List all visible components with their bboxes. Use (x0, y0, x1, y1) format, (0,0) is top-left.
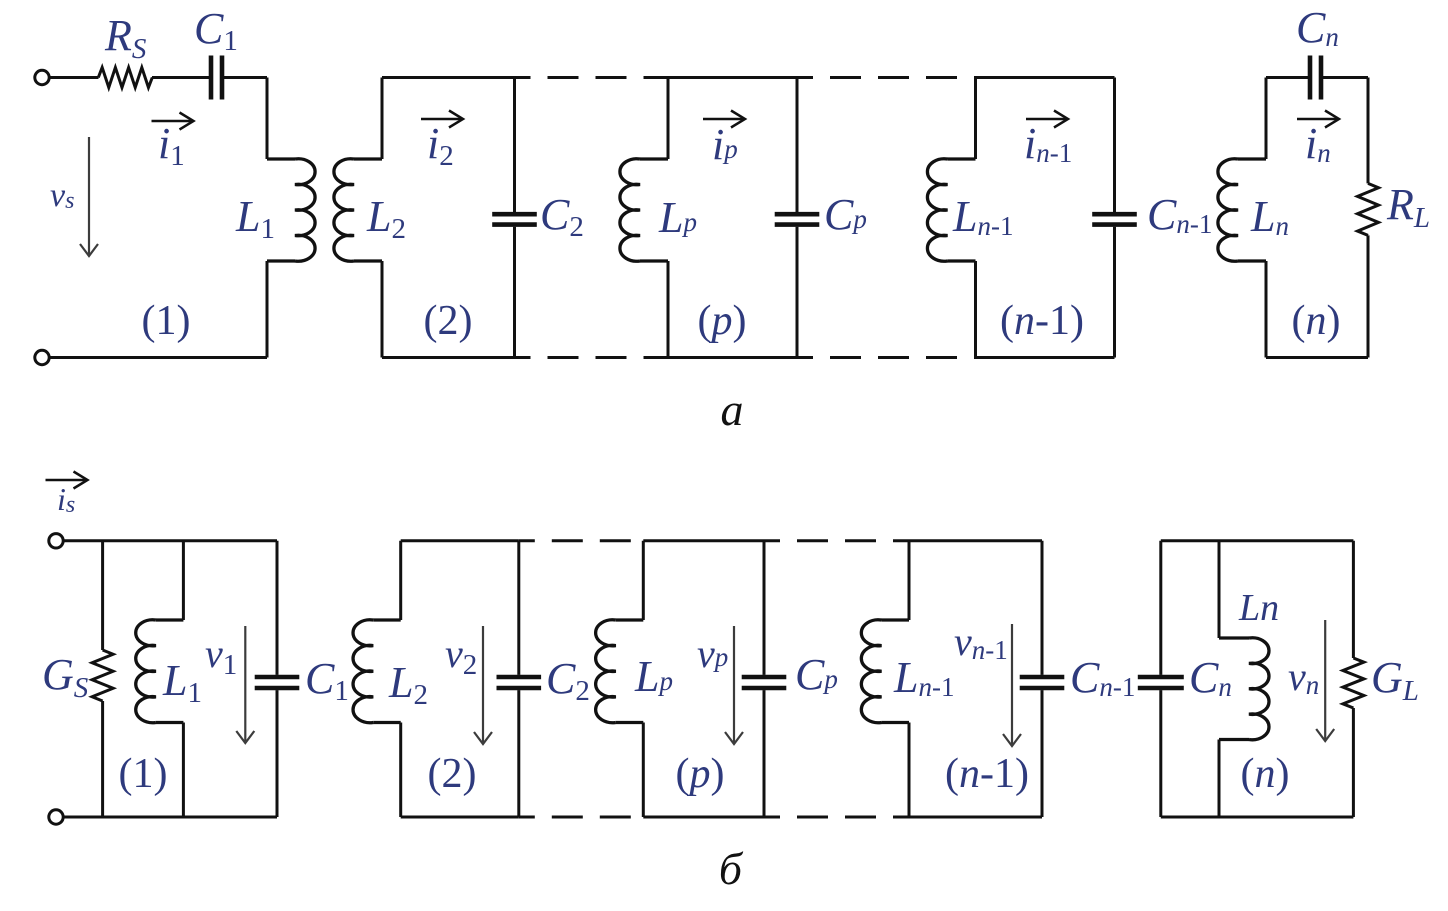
svg-text:(2): (2) (424, 298, 473, 344)
svg-text:б: б (719, 843, 744, 894)
svg-text:(n): (n) (1292, 298, 1341, 344)
svg-text:(1): (1) (142, 298, 191, 344)
svg-text:Ln: Ln (1238, 587, 1279, 629)
svg-text:(n): (n) (1241, 751, 1290, 797)
svg-text:a: a (721, 384, 744, 435)
svg-text:(2): (2) (428, 751, 477, 797)
svg-text:(n-1): (n-1) (945, 751, 1029, 797)
svg-text:(p): (p) (698, 298, 747, 344)
svg-text:(1): (1) (119, 751, 168, 797)
svg-text:(p): (p) (676, 751, 725, 797)
svg-text:(n-1): (n-1) (1000, 298, 1084, 344)
